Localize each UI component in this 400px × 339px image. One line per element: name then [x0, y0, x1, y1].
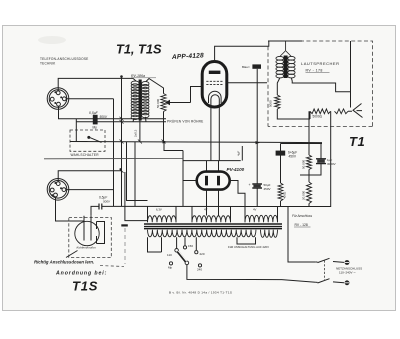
svg-text:500V: 500V — [100, 115, 108, 119]
capacitor C1 block — [93, 115, 98, 125]
wire left riser x183 — [182, 151, 184, 207]
wire top feed right section — [281, 143, 323, 145]
resistor R6 50000 — [307, 155, 312, 170]
wire R1 bottom to bus — [163, 112, 165, 142]
svg-text:3000V: 3000V — [327, 162, 336, 166]
wire TR1 left top lead — [133, 78, 136, 81]
svg-text:T1, T1S: T1, T1S — [116, 42, 162, 57]
wire V1 filament legs — [211, 105, 219, 161]
wire TR3 secondary leads — [148, 207, 316, 263]
tube V1 envelope — [202, 62, 227, 108]
transformer TR2 core — [284, 56, 288, 79]
svg-text:PRÜFEN VON RÖHRE: PRÜFEN VON RÖHRE — [167, 120, 204, 124]
junction dot on top bus — [120, 75, 123, 78]
svg-text:240: 240 — [197, 268, 202, 272]
svg-text:20.000: 20.000 — [302, 190, 306, 200]
resistor R7 30000 — [307, 182, 312, 204]
wire long link y158.6 — [44, 157, 183, 159]
junction dot J2 top wire — [120, 168, 122, 170]
capacitor C6 plates — [99, 204, 102, 210]
transformer TR3 primary windings — [148, 215, 278, 222]
dashed enclosure loudspeaker unit — [268, 41, 373, 127]
wire R6 to mid wire — [308, 170, 310, 183]
wire TR1 right top lead to R1 — [146, 79, 164, 94]
wire V2 left end — [183, 180, 197, 182]
wire vertical x135 — [134, 142, 136, 207]
wire into switch box — [76, 119, 87, 142]
wire TR1 bottom leads — [133, 117, 146, 142]
wire V2 right end step — [230, 181, 245, 207]
svg-text:Anordnung bei:: Anordnung bei: — [55, 271, 107, 277]
junction dot TR3 link — [121, 224, 128, 226]
svg-text:6,3V: 6,3V — [156, 208, 162, 212]
svg-text:50.000: 50.000 — [302, 159, 306, 169]
resistor R5 400ohm — [278, 183, 283, 201]
resistor R2 vertical 5000 — [275, 95, 280, 109]
wire stub x242 — [241, 146, 243, 161]
wire chain x309 top — [308, 111, 310, 155]
wire R3 left end down — [309, 111, 311, 119]
transformer TR3 core lines — [144, 224, 282, 229]
switch S3 link dashed — [324, 260, 326, 281]
svg-text:FüR UMSCHALTUNG AUF 220V: FüR UMSCHALTUNG AUF 220V — [228, 245, 269, 249]
svg-text:WAHLSCHALTER: WAHLSCHALTER — [71, 153, 100, 157]
wire V2 legs down — [207, 190, 219, 216]
wire J1 top pin to top bus — [58, 78, 133, 91]
selector S2 contacts — [169, 246, 201, 267]
resistor R4 speaker series 2 — [335, 109, 349, 114]
wire link to TR3 left — [125, 172, 148, 221]
wire V1 anode to top — [215, 41, 269, 62]
pointer line from note to mic box — [66, 251, 78, 258]
svg-text:110: 110 — [167, 253, 172, 257]
switch S3 upper blade — [316, 258, 344, 262]
connector J2 telephone socket — [47, 179, 69, 201]
wire C4 leads — [320, 144, 322, 176]
wire TR2 secondary bottom — [291, 78, 350, 92]
svg-text:Richtig Anschlussdosen lern.: Richtig Anschlussdosen lern. — [34, 260, 94, 265]
svg-text:450V: 450V — [289, 155, 297, 159]
capacitor C3 electrolytic block — [276, 151, 286, 156]
transformer TR3 secondary windings — [148, 230, 278, 238]
wire grid step from V1 — [191, 87, 204, 103]
wire C6 left — [91, 206, 99, 215]
svg-text:4V: 4V — [204, 208, 208, 212]
capacitor C4 plates — [316, 159, 326, 164]
selector S2 blade — [178, 252, 186, 262]
svg-text:450V: 450V — [264, 187, 271, 191]
svg-text:TECHNIK: TECHNIK — [40, 62, 56, 66]
wire bottom right return — [285, 111, 331, 206]
svg-text:220: 220 — [200, 252, 205, 256]
wire J2 top pin — [58, 171, 121, 182]
capacitor C2 block — [252, 64, 261, 68]
svg-text:+: + — [249, 183, 251, 187]
svg-text:2x0,3: 2x0,3 — [134, 129, 138, 137]
wire R7 to bottom wire — [308, 204, 310, 207]
wire vertical x126 — [127, 142, 148, 201]
wire PV anode leads rise — [207, 161, 219, 172]
wiper arrow of R1 — [166, 101, 191, 105]
electrode frame — [97, 222, 105, 244]
wire R2 bottom L to node — [277, 109, 310, 119]
switch S1 blade — [88, 136, 102, 142]
svg-text:0,5µF: 0,5µF — [89, 111, 99, 115]
svg-text:5000: 5000 — [269, 100, 273, 107]
wire long bottom bus — [102, 205, 285, 207]
resistor R1 — [161, 94, 166, 112]
connector J1 telephone socket — [47, 88, 69, 110]
svg-text:Kohlemikrofon: Kohlemikrofon — [77, 246, 97, 250]
terminal upper — [345, 260, 350, 265]
svg-text:Blau=: Blau= — [242, 65, 250, 69]
switch S3 lower blade — [316, 279, 344, 283]
wire step to PV area — [164, 143, 183, 151]
svg-text:5000Ω: 5000Ω — [313, 115, 323, 119]
jack symbol speaker — [348, 104, 363, 118]
svg-text:4V: 4V — [253, 208, 257, 212]
svg-text:Mp: Mp — [168, 266, 172, 270]
svg-text:T1S: T1S — [72, 279, 98, 294]
svg-text:110–240V ∼: 110–240V ∼ — [339, 271, 356, 275]
transformer TR1 core — [139, 80, 142, 121]
transformer TR1 windings — [131, 81, 149, 120]
wire J2 right pin — [66, 189, 114, 191]
wire mid horizontal — [300, 174, 322, 176]
junction ticks — [120, 117, 166, 173]
wire speaker feed vertical — [350, 41, 352, 108]
wire J2 bottom pin to mic — [56, 197, 85, 221]
terminal lower — [345, 280, 350, 285]
wire filament top link — [183, 160, 241, 162]
wire TR3 top risers — [148, 207, 278, 223]
wire x257 through C5 — [256, 143, 258, 207]
wire node A vertical x113.5 — [113, 99, 115, 207]
svg-text:500V: 500V — [103, 200, 111, 204]
wire node B vertical x121.5 — [121, 77, 123, 207]
tube V1 anode plate — [209, 71, 221, 74]
wire C3 vertical — [280, 144, 282, 184]
svg-text:RV-186a: RV-186a — [131, 74, 145, 78]
capacitor C5 plates — [252, 184, 262, 188]
svg-text:T1: T1 — [349, 134, 365, 149]
svg-text:LAUTSPRECHER: LAUTSPRECHER — [301, 61, 339, 66]
wire TR2 primary bottom to R2 — [277, 78, 280, 95]
wire R5 to bottom wire — [280, 201, 282, 207]
svg-text:150: 150 — [188, 244, 193, 248]
tube V1 grid lines — [206, 81, 223, 84]
svg-text:RV - 128: RV - 128 — [295, 223, 308, 227]
wire J1 right pin to vertical node — [66, 98, 113, 100]
wire second lower bus — [76, 121, 166, 123]
transformer TR2 output windings — [276, 41, 295, 78]
wire S2 to mains switch — [187, 265, 316, 283]
wire V1 screen to right — [226, 82, 267, 84]
svg-text:B v. Bl. Nr. 4048 D 14a / 1934: B v. Bl. Nr. 4048 D 14a / 1934 T1-T1S — [169, 291, 232, 295]
trailing dashes after note — [100, 266, 124, 267]
microphone electrodes — [84, 216, 91, 241]
microphone capsule circle — [75, 221, 99, 245]
svg-text:400Ω: 400Ω — [283, 191, 287, 199]
tube V1 cathode arcs — [209, 91, 222, 104]
svg-text:Mp: Mp — [93, 126, 98, 130]
dashed box around switch S1 — [70, 130, 105, 151]
svg-text:TELEFON-ANSCHLUSSDOSE: TELEFON-ANSCHLUSSDOSE — [40, 57, 88, 61]
arrowhead on bus left — [163, 140, 168, 143]
resistor R3 speaker series — [310, 109, 331, 114]
svg-text:Für Anschluss: Für Anschluss — [292, 214, 312, 218]
svg-text:PV-4100: PV-4100 — [227, 167, 245, 172]
svg-text:50.000: 50.000 — [156, 98, 160, 108]
tube V2 electrode bars — [205, 176, 208, 186]
arrowhead on bus right — [256, 141, 261, 144]
tube V2 envelope PV-4100 — [197, 172, 230, 190]
crease line — [124, 228, 126, 264]
svg-text:RV - 178: RV - 178 — [306, 68, 323, 72]
dashed box microphone unit — [69, 218, 112, 258]
paper smudge — [38, 36, 66, 44]
wire J1 bottom pin down to lower bus — [59, 106, 167, 119]
wire main bus — [70, 142, 322, 143]
svg-text:4µF: 4µF — [237, 151, 241, 156]
wire C2 down node — [256, 69, 258, 143]
